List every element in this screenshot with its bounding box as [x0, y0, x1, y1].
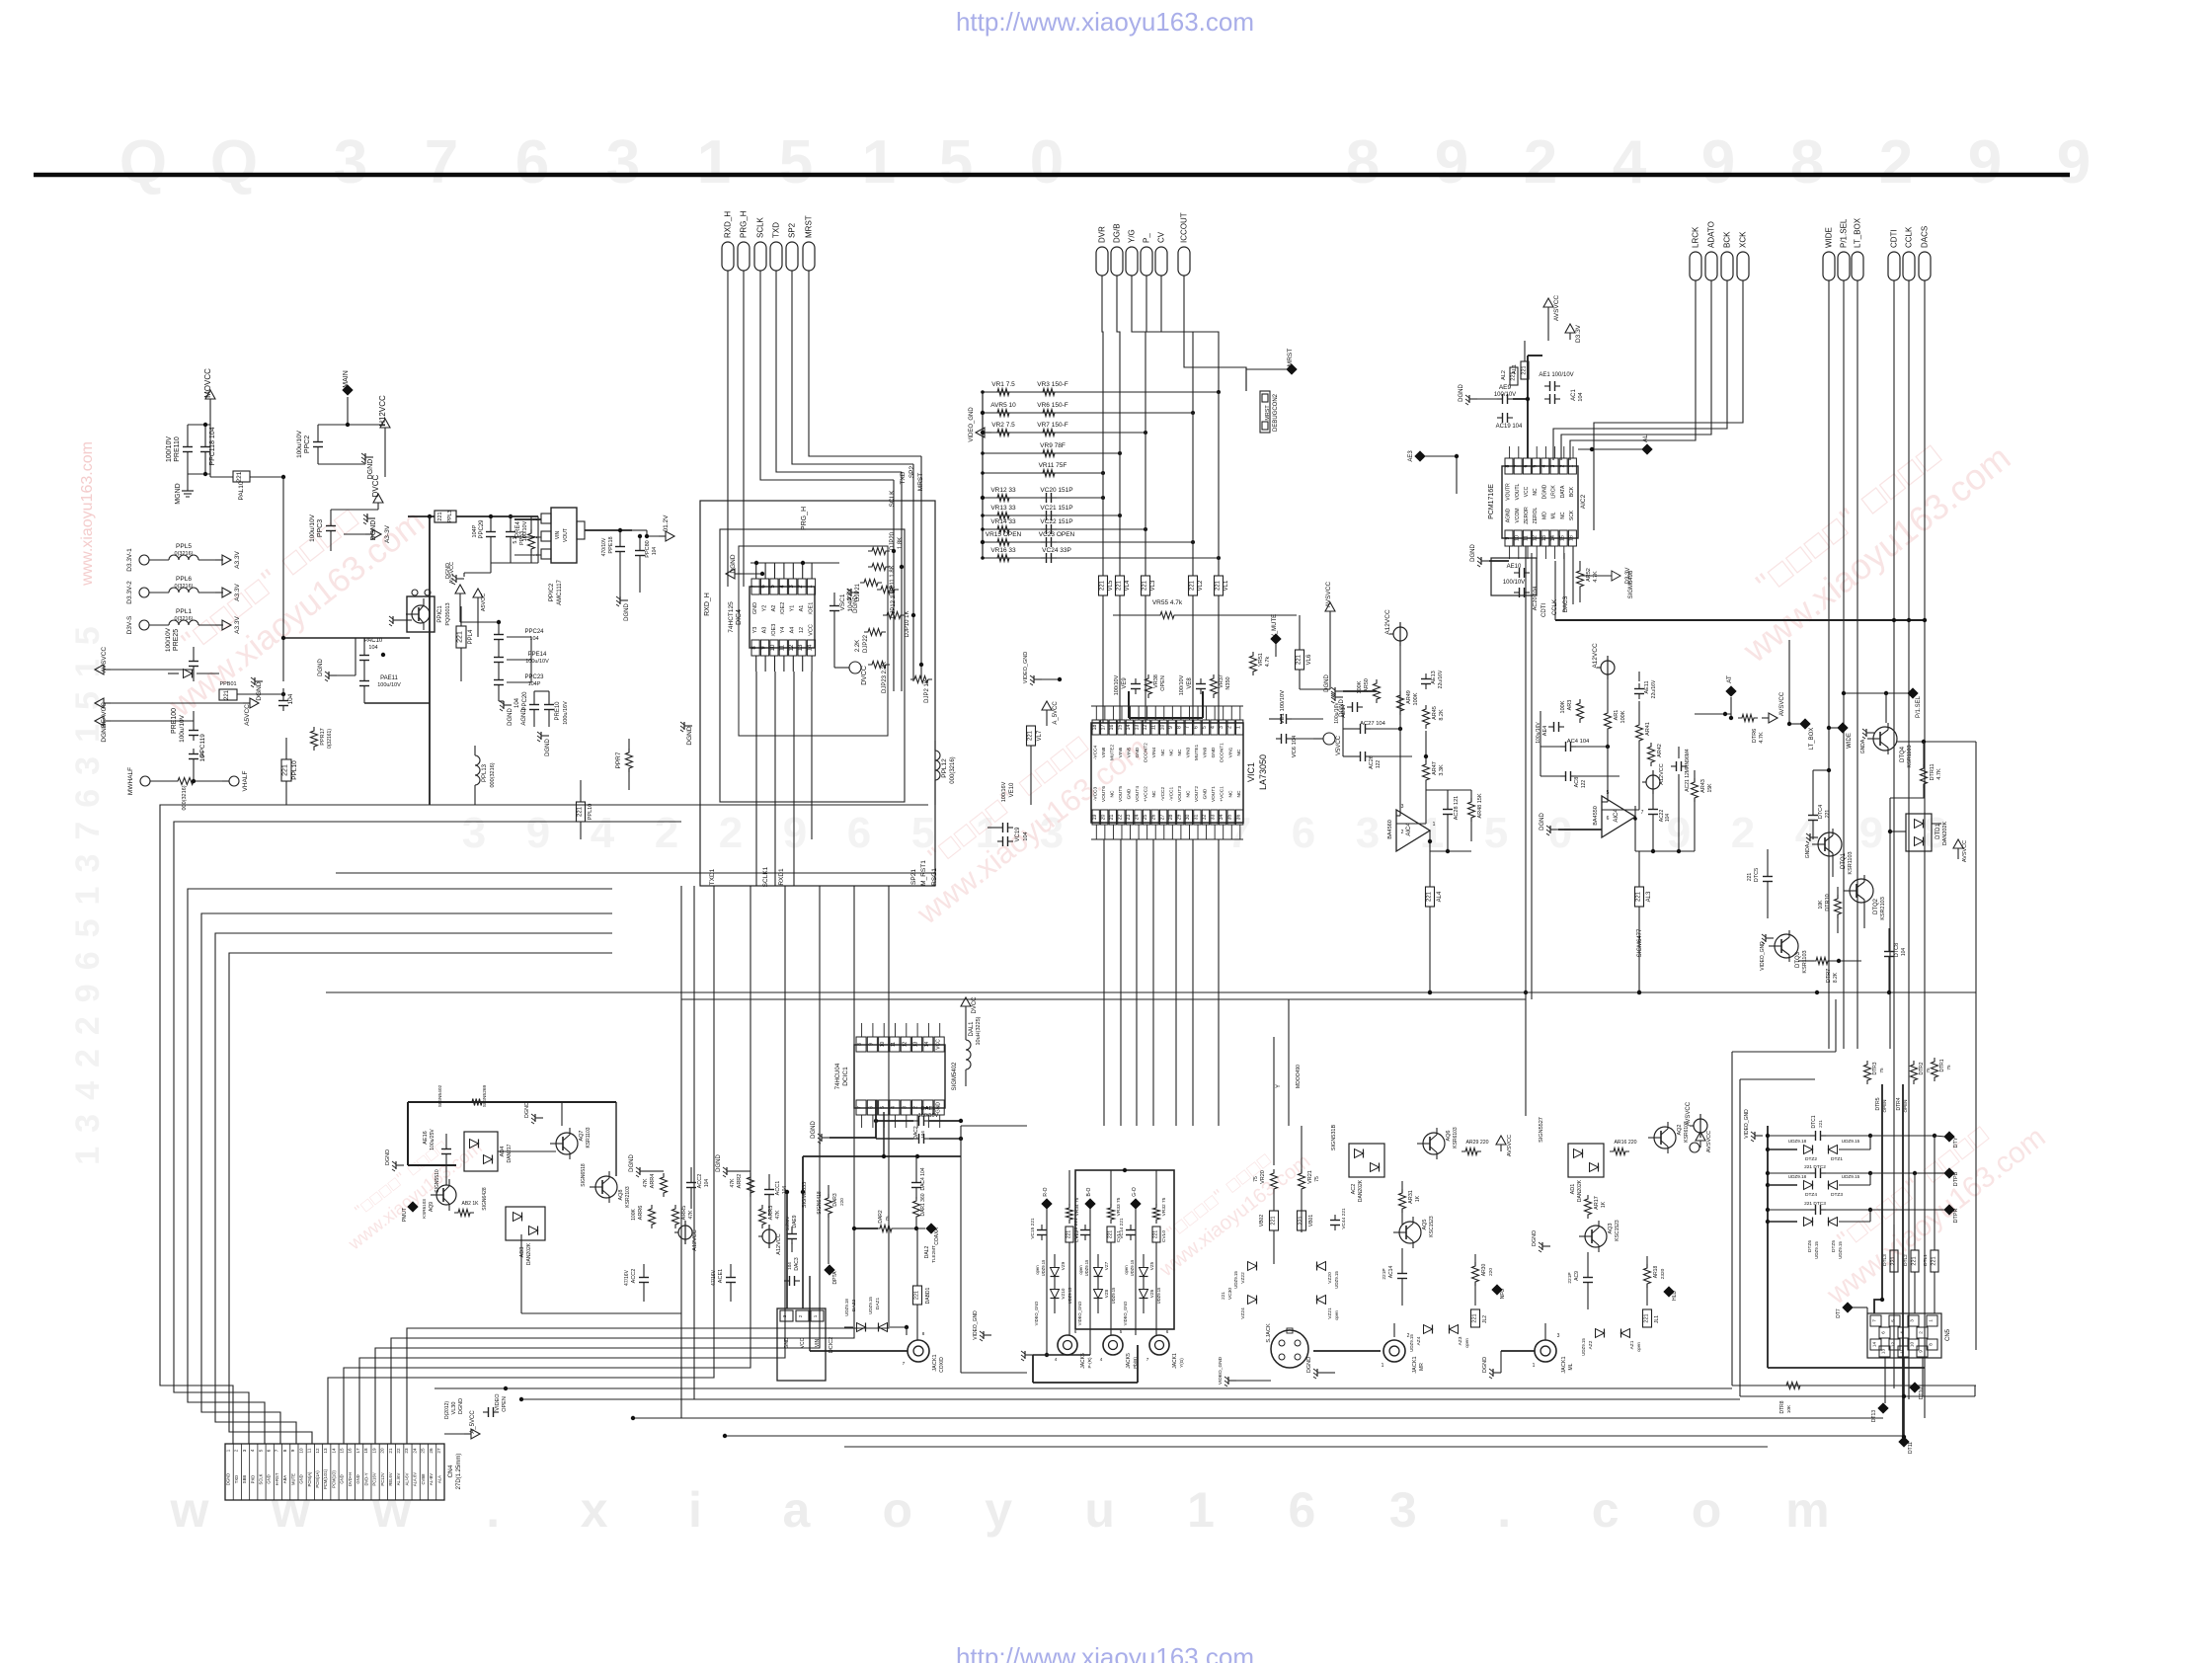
svg-text:11: 11 — [891, 1042, 897, 1047]
svg-text:VL4: VL4 — [1125, 580, 1131, 591]
svg-text:VIN3: VIN3 — [1185, 747, 1191, 757]
svg-text:DTQ2: DTQ2 — [1873, 898, 1879, 914]
jack JACK1 COAX/D — [810, 1276, 945, 1373]
svg-text:DJP22: DJP22 — [863, 634, 869, 653]
svg-text:DIC4: DIC4 — [736, 609, 743, 625]
svg-text:VOUTL: VOUTL — [1515, 483, 1521, 500]
wire dtr5 bend — [1874, 1298, 1884, 1313]
power flag A5VCC left — [148, 698, 259, 726]
svg-text:open: open — [1636, 1342, 1641, 1352]
svg-text:16: 16 — [1569, 535, 1575, 541]
svg-text:UDZ9.15: UDZ9.15 — [1838, 1241, 1843, 1259]
resistor network VR1-VR16 / VC20-VC24 — [969, 381, 1221, 563]
svg-text:13: 13 — [913, 1042, 919, 1048]
svg-text:75: 75 — [1946, 1065, 1951, 1070]
svg-text:221: 221 — [1636, 891, 1642, 902]
svg-text:GND: GND — [1211, 747, 1217, 757]
svg-text:AE3: AE3 — [1408, 450, 1414, 462]
svg-text:RXD1: RXD1 — [778, 868, 785, 886]
svg-text:DGND: DGND — [1541, 484, 1547, 499]
svg-text:104: 104 — [1023, 831, 1029, 840]
capacitor VC44 221 — [1330, 1208, 1347, 1230]
resistor DJP20 1.8K — [868, 531, 904, 554]
net flag AL — [1578, 435, 1653, 455]
capacitor VC6 104 — [1276, 734, 1313, 757]
svg-text:DT11: DT11 — [1908, 1442, 1914, 1454]
net flag DTPR — [1870, 1204, 1959, 1223]
svg-text:VZ7: VZ7 — [1104, 1261, 1109, 1270]
svg-text:DAE9: DAE9 — [792, 1215, 798, 1227]
svg-text:Q: Q — [210, 128, 258, 197]
svg-text:VE10: VE10 — [1009, 782, 1015, 797]
video block inner box — [1075, 1168, 1174, 1329]
svg-text:24: 24 — [1135, 815, 1141, 821]
svg-text:SIGM5402: SIGM5402 — [952, 1062, 958, 1090]
svg-text:8: 8 — [282, 1449, 287, 1452]
power flag D3_3V pcm — [1565, 324, 1582, 343]
svg-text:AT: AT — [1726, 675, 1733, 683]
svg-text:32: 32 — [1202, 815, 1208, 821]
connector header P4 (WIDE P/1.SEL LT_BOX) — [1823, 217, 1863, 280]
svg-text:NFO: NFO — [1500, 1289, 1506, 1300]
svg-text:10K: 10K — [1818, 900, 1824, 910]
svg-text:100/10V: 100/10V — [1114, 674, 1120, 695]
svg-text:SIGN531B: SIGN531B — [1331, 1125, 1337, 1151]
svg-text:MRST: MRST — [917, 473, 924, 491]
svg-text:JACK1: JACK1 — [1412, 1356, 1418, 1373]
svg-text:DABD1: DABD1 — [925, 1287, 931, 1304]
svg-text:104: 104 — [287, 693, 294, 704]
svg-text:PPC80: PPC80 — [645, 540, 651, 557]
capacitor ACC2 47/16V — [624, 1264, 649, 1302]
svg-text:A3.3V: A3.3V — [234, 583, 241, 600]
capacitor VE1 100/10V — [1269, 690, 1323, 724]
svg-text:VC20 151P: VC20 151P — [1040, 487, 1072, 494]
svg-text:ZEROL: ZEROL — [1533, 507, 1539, 523]
resistor AR1 100K — [1605, 709, 1627, 733]
svg-text:6: 6 — [1607, 816, 1610, 822]
svg-text:-VCC2: -VCC2 — [1160, 786, 1166, 801]
svg-text:LT_BOX: LT_BOX — [1854, 217, 1862, 248]
svg-text:VB02: VB02 — [1259, 1215, 1265, 1227]
resistor VR20 75 — [1253, 1169, 1278, 1193]
svg-text:VL6: VL6 — [1306, 654, 1312, 665]
svg-text:DGND: DGND — [226, 1473, 231, 1485]
wire dcic2 feeds — [785, 1190, 805, 1308]
svg-text:PXD: PXD — [250, 1475, 255, 1484]
svg-text:DTQ3: DTQ3 — [1795, 951, 1801, 968]
svg-text:SCK: SCK — [1569, 510, 1575, 520]
svg-text:DT10: DT10 — [1919, 1387, 1925, 1399]
svg-text:18: 18 — [1092, 725, 1098, 731]
svg-text:DGND: DGND — [458, 1398, 464, 1414]
power flag DVCC dcic — [961, 996, 978, 1023]
capacitor AC21 12M — [1671, 747, 1691, 835]
svg-text:1: 1 — [862, 128, 896, 197]
capacitor AC8 122 — [1540, 771, 1619, 788]
capacitor AC19 104 — [1496, 413, 1523, 430]
svg-text:o: o — [883, 1482, 913, 1538]
svg-text:DGND: DGND — [716, 1154, 722, 1172]
resistor AL1 221 — [1512, 341, 1529, 379]
svg-text:DGND: DGND — [101, 723, 108, 742]
svg-text:221P: 221P — [1382, 1268, 1387, 1279]
resistor AR18 2320 — [1644, 1256, 1667, 1306]
svg-text:JL1: JL1 — [1654, 1315, 1660, 1323]
svg-text:PQ05013: PQ05013 — [445, 602, 451, 625]
svg-text:VIC1: VIC1 — [1246, 762, 1256, 782]
svg-text:PPC24: PPC24 — [524, 629, 544, 635]
svg-text:Y/G: Y/G — [1128, 229, 1137, 243]
power flag AVSVCC ml — [1690, 1131, 1712, 1152]
svg-text:15K: 15K — [1707, 783, 1713, 793]
svg-text:A3: A3 — [761, 627, 767, 634]
svg-text:100K: 100K — [1560, 700, 1566, 713]
svg-text:ALA: ALA — [436, 1475, 441, 1483]
svg-text:BCK: BCK — [1723, 231, 1732, 248]
svg-text:DEBUGCON2: DEBUGCON2 — [1273, 393, 1279, 432]
svg-text:DTD1: DTD1 — [1935, 824, 1941, 839]
capacitor DAC4 104 — [911, 1156, 926, 1199]
wire at link — [1695, 712, 1731, 716]
resistor PPL10b 221 — [577, 780, 594, 839]
net flag V_MUTE — [1270, 614, 1281, 657]
svg-text:104: 104 — [920, 1131, 925, 1139]
net label SIGN5527 — [1539, 1117, 1544, 1143]
bus wire stair 2 — [174, 822, 681, 1444]
power node V5VCC — [1313, 733, 1342, 755]
svg-text:470/10V: 470/10V — [601, 537, 607, 556]
svg-text:VL5: VL5 — [1108, 580, 1114, 591]
svg-text:DTR7: DTR7 — [1826, 969, 1832, 983]
svg-text:2: 2 — [1879, 128, 1913, 197]
wires dic4 outputs down — [756, 672, 812, 886]
svg-text:AZ4: AZ4 — [1416, 1336, 1422, 1345]
svg-text:0(32161): 0(32161) — [327, 729, 333, 749]
svg-text:3: 3 — [1550, 464, 1556, 467]
svg-text:A12VCC: A12VCC — [776, 1233, 782, 1254]
svg-text:1.8K: 1.8K — [898, 537, 904, 549]
svg-text:74HCT125: 74HCT125 — [728, 601, 735, 633]
svg-text:DTZ3: DTZ3 — [1831, 1192, 1843, 1198]
power flag A_5VCC cn4 — [444, 1410, 480, 1439]
svg-text:http://www.xiaoyu163.com: http://www.xiaoyu163.com — [956, 1642, 1254, 1663]
resistor DTR11 4.7K — [1890, 742, 1942, 798]
svg-text:AL-BV: AL-BV — [429, 1473, 434, 1485]
resistor PAL10 221 — [210, 471, 285, 501]
svg-text:UDZ9.18: UDZ9.18 — [1788, 1139, 1807, 1144]
resistor DAR3 220 — [826, 1185, 845, 1264]
svg-text:AE1 100/10V: AE1 100/10V — [1539, 372, 1573, 378]
bus wire stair 3 — [188, 889, 612, 1444]
svg-text:2: 2 — [719, 809, 743, 857]
zener AZ1 — [1621, 1329, 1642, 1352]
svg-text:NC: NC — [1151, 790, 1157, 797]
svg-text:UDZ9.15: UDZ9.15 — [1814, 1241, 1819, 1259]
svg-text:open: open — [1464, 1338, 1469, 1348]
svg-text:VIN1: VIN1 — [1227, 747, 1233, 757]
power node A12VCC a — [1384, 609, 1407, 691]
resistor AR17 1K — [1585, 1195, 1608, 1219]
resistor AR45 8.2K — [1423, 705, 1446, 729]
svg-text:/OE3: /OE3 — [771, 624, 777, 637]
svg-text:VIN4: VIN4 — [1151, 747, 1157, 757]
svg-text:DTY: DTY — [1953, 1137, 1959, 1148]
svg-text:VL30: VL30 — [451, 1402, 457, 1415]
svg-text:DAC2: DAC2 — [913, 1126, 919, 1140]
svg-text:1: 1 — [1187, 1482, 1215, 1538]
resistor DTR6 4.7K — [1738, 715, 1765, 744]
svg-text:VOUT4: VOUT4 — [1135, 786, 1141, 802]
svg-text:75: 75 — [885, 1216, 890, 1222]
transistor AQ2 KSR6103 — [1648, 1121, 1690, 1153]
svg-text:MUTE: MUTE — [290, 1473, 295, 1485]
svg-text:DVD+H: DVD+H — [348, 1472, 353, 1486]
power flag MOVCC — [203, 368, 215, 477]
svg-text:N350: N350 — [1225, 676, 1231, 689]
svg-text:11: 11 — [307, 1448, 312, 1453]
svg-text:DTL3: DTL3 — [1882, 1254, 1888, 1266]
ground DGND k2 — [716, 1154, 750, 1177]
label CN5 — [1945, 1328, 1951, 1341]
svg-text:2: 2 — [1524, 128, 1557, 197]
svg-text:PPC118 104: PPC118 104 — [209, 427, 216, 465]
resistor AR42 3.3K — [1648, 743, 1664, 766]
svg-text:100/10V: 100/10V — [918, 1113, 939, 1119]
svg-text:5: 5 — [258, 1449, 263, 1452]
svg-text:+VCC1: +VCC1 — [1220, 786, 1225, 802]
svg-text:AZ2: AZ2 — [1588, 1340, 1594, 1349]
capacitor DAE9 1u/50V — [785, 1215, 798, 1252]
svg-text:AR42: AR42 — [1657, 744, 1663, 757]
svg-text:VIN: VIN — [815, 1338, 821, 1347]
svg-text:100/16V: 100/16V — [1001, 781, 1007, 802]
svg-text:221: 221 — [1891, 1256, 1897, 1265]
capacitor PAC10 104 — [359, 638, 385, 675]
ground DGND ml — [1532, 1230, 1550, 1252]
resistor DJP11 1.8K — [868, 564, 896, 596]
resistor DTL2 221 — [1903, 1173, 1919, 1313]
svg-text:TXD: TXD — [772, 222, 781, 238]
svg-text:221: 221 — [1297, 654, 1303, 665]
svg-text:VL2: VL2 — [1198, 580, 1204, 591]
svg-text:+VCC2: +VCC2 — [1144, 786, 1149, 802]
resistor ARR3 47K — [759, 1205, 782, 1228]
svg-text:VC23 OPEN: VC23 OPEN — [1039, 531, 1075, 538]
power node AVSVCC o — [1686, 1101, 1707, 1138]
svg-text:VE1 100/10V: VE1 100/10V — [1280, 690, 1286, 724]
capacitor PPC118 104 — [188, 423, 216, 476]
svg-text:AR17: AR17 — [1594, 1196, 1600, 1210]
svg-text:221: 221 — [1472, 1313, 1478, 1322]
capacitor VE8 100/10V — [1179, 674, 1206, 695]
svg-text:WIDE: WIDE — [1825, 227, 1834, 248]
capacitor ACC2 104 — [686, 1167, 710, 1209]
svg-text:PMUT: PMUT — [402, 1208, 408, 1222]
svg-text:AL4: AL4 — [1437, 891, 1443, 902]
svg-text:1: 1 — [1929, 1319, 1934, 1322]
svg-text:2: 2 — [1401, 830, 1404, 835]
svg-text:open: open — [1078, 1265, 1083, 1275]
svg-text:VR55 4.7k: VR55 4.7k — [1152, 599, 1183, 606]
net label SIGM6477 — [1637, 928, 1643, 957]
svg-text:6: 6 — [1194, 726, 1200, 729]
svg-text:CN4: CN4 — [447, 1465, 454, 1477]
net label SIGN531B — [1331, 1125, 1337, 1151]
svg-text:221: 221 — [1511, 371, 1517, 380]
svg-text:VR14 33: VR14 33 — [990, 518, 1016, 525]
svg-text:18: 18 — [363, 1448, 368, 1454]
svg-text:AR3: AR3 — [1567, 700, 1573, 711]
resistor DTL3 221 — [1882, 1225, 1898, 1313]
ground DGND la right — [1331, 693, 1345, 717]
svg-text:NC: NC — [1160, 749, 1166, 755]
svg-text:16: 16 — [348, 1448, 353, 1454]
power node A12VCC k2 — [758, 1225, 782, 1255]
svg-text:221: 221 — [1271, 1216, 1277, 1225]
svg-text:DAZ2: DAZ2 — [851, 1300, 857, 1312]
svg-text:8: 8 — [1929, 1343, 1934, 1346]
svg-text:000(3216): 000(3216) — [950, 756, 956, 783]
svg-text:4.7K: 4.7K — [1759, 732, 1765, 744]
svg-text:w: w — [170, 1482, 209, 1538]
op-amp AIC4 BA4560 a — [1387, 691, 1436, 851]
resistor AL2 221 — [1501, 367, 1518, 385]
svg-text:GNDA: GNDA — [1805, 843, 1811, 858]
svg-text:10: 10 — [1514, 535, 1520, 541]
svg-text:12: 12 — [1143, 725, 1148, 731]
svg-text:REL6V: REL6V — [388, 1472, 393, 1485]
svg-text:ACC2: ACC2 — [631, 1269, 637, 1284]
svg-text:4: 4 — [250, 1449, 255, 1452]
resistor AL3 221 — [1635, 851, 1653, 994]
IC AIC2 PCM1716E — [1488, 458, 1587, 546]
svg-text:VZ21: VZ21 — [1327, 1307, 1333, 1319]
net label A3_3V a — [344, 524, 391, 543]
svg-text:MUTE2: MUTE2 — [1109, 745, 1115, 761]
svg-text:6: 6 — [1881, 1331, 1886, 1334]
resistor VL7 221 — [1027, 726, 1044, 805]
capacitor DAE1 100/10V — [874, 1106, 963, 1126]
svg-text:10: 10 — [1159, 725, 1165, 731]
svg-text:Y3: Y3 — [752, 627, 758, 634]
svg-text:UDZ9.15: UDZ9.15 — [868, 1297, 873, 1314]
capacitor DTC3 221 — [1768, 1201, 1872, 1215]
svg-text:VR20: VR20 — [1260, 1170, 1266, 1184]
resistor DJP21 1.8K — [847, 580, 882, 602]
svg-text:1: 1 — [1235, 726, 1241, 729]
jack JACK1 MR — [1313, 1323, 1425, 1374]
svg-text:7: 7 — [1872, 1319, 1877, 1322]
svg-text:221: 221 — [578, 806, 584, 817]
svg-text:DTL1: DTL1 — [1923, 1254, 1929, 1266]
svg-text:14: 14 — [331, 1448, 336, 1454]
svg-text:VZ24: VZ24 — [1240, 1307, 1246, 1319]
svg-text:AC21 12MRN96M4: AC21 12MRN96M4 — [1685, 749, 1691, 792]
svg-text:VR21: VR21 — [1307, 1170, 1313, 1184]
svg-text:12: 12 — [1891, 1342, 1896, 1348]
svg-text:PPL12: PPL12 — [941, 758, 948, 778]
svg-text:10: 10 — [298, 1448, 303, 1454]
svg-text:BA4550: BA4550 — [1593, 806, 1599, 826]
svg-text:2.2K: 2.2K — [855, 640, 861, 652]
ground DGND amp2 — [1540, 813, 1602, 835]
svg-text:AMC1117: AMC1117 — [557, 579, 563, 604]
transistor AQ7 KSR1103 — [550, 1127, 592, 1159]
wire dic4 top rail — [750, 561, 839, 565]
svg-text:4: 4 — [891, 1106, 897, 1109]
svg-text:221: 221 — [1912, 1256, 1918, 1265]
svg-text:221: 221 — [1644, 1313, 1650, 1322]
transistor AQ9 KSR6103 — [422, 1179, 456, 1219]
svg-text:SP2: SP2 — [908, 465, 915, 478]
svg-text:VIDEO_GND: VIDEO_GND — [973, 1310, 979, 1340]
wire dac thick net — [803, 1100, 961, 1192]
svg-text:VR51: VR51 — [1258, 653, 1264, 667]
svg-text:3: 3 — [1356, 809, 1380, 857]
svg-text:AE11: AE11 — [1644, 680, 1650, 693]
svg-text:2: 2 — [1559, 464, 1565, 467]
svg-text:5: 5 — [1202, 726, 1208, 729]
svg-text:6: 6 — [1074, 1329, 1077, 1334]
svg-text:PPC20: PPC20 — [522, 691, 528, 711]
svg-text:100u/25V: 100u/25V — [430, 1129, 435, 1150]
connector CN4 27D(1.25mm) — [225, 1444, 444, 1500]
svg-text:100/10V: 100/10V — [1494, 392, 1516, 398]
svg-text:ACE1: ACE1 — [718, 1269, 724, 1283]
svg-text:VZ20: VZ20 — [1327, 1272, 1333, 1284]
resistor AR31 1K — [1399, 1181, 1422, 1225]
label CN4 — [447, 1454, 462, 1490]
svg-text:DTR8: DTR8 — [1779, 1400, 1785, 1413]
svg-text:SCLK: SCLK — [889, 490, 896, 508]
svg-text:OPEN: OPEN — [1160, 675, 1166, 691]
svg-text:GND: GND — [1135, 747, 1141, 757]
svg-text:AVSVCC: AVSVCC — [1686, 1101, 1692, 1126]
ground DGND pwr2 — [331, 510, 378, 540]
svg-text:5: 5 — [779, 128, 813, 197]
bus CDTI CCLK DACS — [1541, 546, 1927, 622]
svg-text:x: x — [581, 1482, 608, 1538]
svg-text:AR48 15K: AR48 15K — [1477, 793, 1483, 818]
net flag DT7 — [1836, 1302, 1867, 1317]
svg-text:VL3: VL3 — [1150, 580, 1156, 591]
svg-text:VCC: VCC — [808, 624, 814, 636]
svg-text:VR15 OPEN: VR15 OPEN — [986, 531, 1022, 538]
svg-text:NC: NC — [1168, 749, 1174, 755]
svg-text:25: 25 — [421, 1448, 426, 1454]
svg-text:DTR3: DTR3 — [1872, 1062, 1878, 1074]
connector CN5 — [1867, 1313, 1941, 1358]
svg-text:XCK: XCK — [1739, 231, 1748, 248]
bus wire mid horizontal 2 — [681, 998, 1526, 1000]
power flag DVCC — [371, 474, 383, 510]
svg-text:AR29 220: AR29 220 — [1465, 1140, 1488, 1146]
svg-text:12: 12 — [1533, 535, 1539, 541]
svg-text:LRCK: LRCK — [1551, 485, 1557, 499]
svg-text:ARR2: ARR2 — [737, 1174, 743, 1189]
pin stubs DCIC1 — [862, 1023, 940, 1128]
svg-text:75: 75 — [1314, 1176, 1320, 1182]
svg-text:MRST: MRST — [1287, 349, 1294, 366]
svg-text:A3-3V: A3-3V — [384, 524, 391, 543]
net label SIGM6498 — [1628, 570, 1634, 598]
capacitor AC26 122 — [1343, 752, 1412, 769]
power node A12VCC b — [1592, 643, 1615, 709]
svg-text:DVCC: DVCC — [972, 996, 978, 1014]
svg-text:MRST: MRST — [805, 215, 814, 238]
capacitor AE4 100u/16V — [1536, 711, 1564, 776]
